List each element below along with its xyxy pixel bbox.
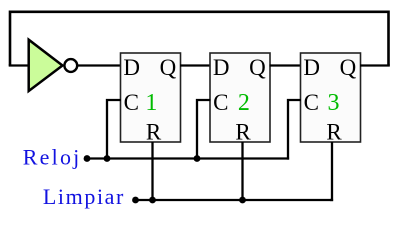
wire FF2 C from clock (197, 100, 211, 159)
wire Reloj clock bus (87, 157, 289, 159)
wire FF2 Q to FF3 D (270, 64, 302, 66)
svg-text:D: D (213, 55, 230, 80)
svg-text:R: R (326, 120, 342, 145)
svg-text:D: D (123, 55, 140, 80)
junction FF2 R on clear bus (239, 197, 246, 204)
svg-text:C: C (304, 90, 319, 115)
wire feedback top loop (10, 12, 389, 66)
flip-flop 3 box (301, 53, 361, 142)
svg-text:R: R (146, 120, 162, 145)
svg-text:Reloj: Reloj (23, 145, 82, 170)
svg-text:Limpiar: Limpiar (43, 184, 125, 209)
svg-text:3: 3 (328, 90, 340, 116)
inverter (29, 40, 78, 91)
svg-text:Q: Q (249, 55, 266, 80)
svg-text:D: D (303, 55, 320, 80)
wire FF3 R to clear bus (330, 142, 332, 200)
wire Limpiar clear bus (136, 199, 334, 201)
svg-text:C: C (213, 90, 228, 115)
junction FF1 C on clock bus (104, 155, 111, 162)
wire FF1 C from clock (107, 100, 121, 159)
svg-text:C: C (124, 90, 139, 115)
svg-text:1: 1 (145, 90, 157, 116)
node Limpiar terminal (132, 197, 139, 204)
wire FF2 R to clear bus (241, 142, 243, 200)
wire FF1 R to clear bus (151, 142, 153, 200)
flip-flop 2 box (210, 53, 270, 142)
svg-text:R: R (235, 120, 251, 145)
flip-flop 1 box (121, 53, 181, 142)
wire FF1 Q to FF2 D (180, 64, 211, 66)
wire inverter output to FF1 D (77, 64, 121, 66)
junction FF2 C on clock bus (194, 155, 201, 162)
wire FF3 Q to feedback (360, 64, 390, 66)
junction FF1 R on clear bus (149, 197, 156, 204)
node Reloj terminal (84, 155, 91, 162)
svg-text:2: 2 (238, 90, 250, 116)
svg-text:Q: Q (160, 55, 177, 80)
wire FF3 C from clock (288, 100, 301, 160)
wire inverter input (9, 64, 29, 66)
svg-text:Q: Q (340, 55, 357, 80)
